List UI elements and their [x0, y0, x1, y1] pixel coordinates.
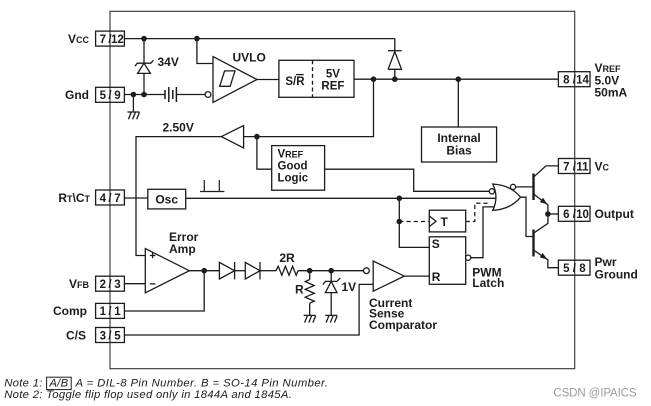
wire dashed to T flipflop clock — [399, 221, 429, 223]
svg-text:Note 1:: Note 1: — [4, 377, 43, 389]
node 2R-R — [307, 268, 313, 274]
svg-text:Logic: Logic — [278, 173, 309, 185]
svg-text:T: T — [441, 215, 449, 229]
svg-text:7: 7 — [100, 34, 106, 46]
resistor 2R horizontal — [276, 266, 298, 275]
wire zener 34V top lead — [143, 39, 145, 64]
wire 2.50V comparator output to error amp + — [136, 137, 221, 256]
wire RT/CT to Osc — [124, 197, 147, 199]
svg-text:Output: Output — [595, 207, 634, 221]
svg-text:5: 5 — [100, 90, 107, 102]
pin Output 6/10 box — [558, 206, 590, 221]
svg-text:9: 9 — [114, 90, 120, 102]
wire diode2 to 2R — [260, 270, 276, 272]
wire Osc output to gate — [186, 197, 496, 199]
svg-text:R: R — [295, 282, 304, 296]
wire UVLO upper input from Vcc — [197, 39, 213, 64]
IC outline — [110, 11, 575, 368]
wire zener 1V top lead — [330, 271, 332, 282]
wire down to latch S input — [399, 198, 429, 247]
diode D2 — [245, 262, 260, 279]
node T clock tap — [397, 219, 403, 225]
svg-text:5: 5 — [563, 263, 570, 275]
svg-text:Amp: Amp — [169, 242, 196, 256]
wire zener 1V bottom lead — [330, 293, 332, 316]
op-amp error amplifier — [145, 249, 189, 293]
node osc line tap — [397, 196, 403, 202]
svg-text:2.50V: 2.50V — [163, 121, 194, 135]
wire R top lead — [309, 271, 311, 280]
pin VFB 2/3 box — [96, 276, 125, 291]
svg-text:A/B: A/B — [48, 377, 68, 389]
svg-text:Osc: Osc — [155, 192, 178, 206]
transistor Q2 lower NPN — [534, 214, 559, 268]
ground symbol below Gnd pin — [128, 112, 140, 119]
svg-text:Comparator: Comparator — [369, 318, 437, 332]
clock waveform symbol — [200, 180, 224, 192]
pin Vcc 7/12 box — [96, 31, 125, 46]
svg-text:RT\CT: RT\CT — [58, 191, 90, 205]
svg-text:Ground: Ground — [595, 268, 638, 282]
svg-text:1V: 1V — [342, 280, 357, 294]
svg-text:Bias: Bias — [446, 144, 472, 158]
ground symbol below R — [304, 315, 316, 322]
battery symbol (UVLO threshold) — [165, 87, 176, 102]
NOTES — [4, 377, 328, 401]
svg-text:S: S — [432, 237, 440, 251]
svg-text:3: 3 — [100, 330, 106, 342]
wire latch Qbar to gate — [471, 207, 495, 258]
node comparator input branch — [254, 134, 260, 140]
svg-text:6: 6 — [563, 209, 569, 221]
diode D1 — [219, 262, 234, 279]
svg-text:Good: Good — [278, 161, 308, 173]
right pin labels — [595, 61, 638, 282]
pin VREF 8/14 box — [558, 72, 590, 87]
TEXT LABELS inside diagram — [155, 51, 504, 333]
svg-text:34V: 34V — [158, 55, 179, 69]
svg-text:CSDN @IPAICS: CSDN @IPAICS — [553, 388, 637, 400]
pin RT/CT 4/7 box — [96, 190, 125, 205]
svg-text:UVLO: UVLO — [233, 51, 266, 65]
op-amp 2.50V reference comparator — [221, 126, 243, 148]
wire R bottom lead — [309, 303, 311, 315]
svg-text:1: 1 — [100, 306, 107, 318]
svg-text:2R: 2R — [279, 251, 295, 265]
wire output node to pin 6/10 — [548, 213, 559, 215]
svg-text:5V: 5V — [326, 69, 340, 81]
svg-text:50mA: 50mA — [595, 86, 628, 100]
wire dashed T output to gate — [466, 203, 489, 221]
wire Vcc rail — [124, 38, 394, 40]
svg-text:Latch: Latch — [472, 276, 504, 290]
svg-text:VFB: VFB — [69, 277, 90, 291]
wire UVLO output to 5V REF block — [257, 79, 279, 81]
svg-text:S/R: S/R — [285, 76, 305, 88]
svg-text:Note 2: Toggle flip flop used: Note 2: Toggle flip flop used only in 18… — [4, 389, 292, 401]
wire VREF down to 2.50V comparator input — [244, 79, 374, 136]
svg-text:11: 11 — [576, 161, 589, 173]
op-amp UVLO comparator — [205, 57, 257, 103]
wire ground lead below Gnd — [132, 95, 134, 113]
svg-text:3: 3 — [114, 279, 120, 291]
svg-text:10: 10 — [576, 209, 589, 221]
node VREF-diode — [392, 76, 398, 82]
pin Pwr Ground 5/8 box — [558, 260, 590, 275]
node output totem pole — [545, 211, 551, 217]
wire diode bottom lead — [394, 69, 396, 80]
wire error amp output to diodes — [189, 270, 219, 272]
block Internal Bias — [422, 127, 497, 162]
ground symbol below 1V zener — [325, 315, 337, 322]
svg-text:8: 8 — [579, 263, 586, 275]
pin C/S 3/5 box — [96, 328, 125, 343]
svg-text:5: 5 — [114, 330, 121, 342]
wire gate output to lower transistor base — [521, 197, 534, 236]
node Gnd-ground — [131, 92, 137, 98]
resistor R vertical — [305, 280, 314, 304]
svg-text:VC: VC — [595, 159, 610, 173]
diode Vcc to VREF — [388, 51, 402, 70]
wire C/S to current sense lower input — [124, 284, 373, 335]
node Vcc-UVLO — [194, 36, 200, 42]
pin Vc 7/11 box — [558, 159, 590, 174]
svg-text:A = DIL-8 Pin Number. B = SO-1: A = DIL-8 Pin Number. B = SO-14 Pin Numb… — [75, 377, 329, 389]
pin Comp 1/1 box — [96, 303, 125, 318]
op-amp current sense comparator — [364, 261, 405, 291]
left pin labels — [53, 32, 91, 342]
block S/R 5V REF — [279, 60, 354, 97]
svg-text:1: 1 — [114, 306, 121, 318]
svg-text:REF: REF — [321, 81, 344, 93]
svg-text:7: 7 — [563, 161, 569, 173]
wire VREF Good Logic output to gate — [325, 169, 490, 191]
svg-text:R: R — [432, 270, 441, 284]
DASHED wires — [399, 203, 488, 221]
PINBOXES — [96, 31, 590, 342]
wire Gnd rail — [124, 94, 165, 96]
wire gate top bubble to upper transistor base — [516, 186, 534, 188]
node VREF-2.50V tap — [371, 76, 377, 82]
node Gnd-zener — [141, 92, 147, 98]
latch S/R box — [429, 237, 471, 284]
svg-text:Comp: Comp — [53, 304, 87, 318]
block Osc — [148, 189, 186, 209]
svg-text:12: 12 — [111, 34, 124, 46]
node 2R-zener1V — [328, 268, 334, 274]
wire current sense output to latch R — [404, 275, 429, 277]
svg-text:Gnd: Gnd — [65, 88, 89, 102]
svg-text:4: 4 — [100, 193, 107, 205]
wire branch to VREF Good Logic — [257, 137, 272, 170]
svg-text:VREF: VREF — [278, 149, 304, 161]
wire VFB to error amp - — [124, 283, 145, 285]
flip-flop T box — [429, 210, 465, 232]
wire Internal Bias feed — [457, 79, 459, 127]
node Vcc-zener — [141, 36, 147, 42]
wire VREF rail to pin 8/14 — [354, 78, 558, 80]
svg-text:2: 2 — [100, 279, 106, 291]
svg-text:7: 7 — [114, 193, 120, 205]
transistor Q1 upper NPN — [534, 166, 559, 214]
node VREF-bias — [456, 76, 462, 82]
svg-text:VCC: VCC — [68, 32, 90, 46]
svg-text:C/S: C/S — [66, 328, 86, 342]
svg-text:14: 14 — [576, 75, 589, 87]
zener diode 1V — [323, 278, 340, 293]
zener diode 34V — [135, 60, 154, 73]
wire zener 34V bottom lead — [143, 73, 145, 94]
wire comp feedback branch — [124, 271, 204, 311]
wire between diodes — [235, 270, 246, 272]
wire battery to UVLO bubble — [176, 94, 205, 96]
wire diode from Vcc rail top lead — [394, 39, 396, 51]
pin Gnd 5/9 box — [96, 87, 125, 102]
block VREF Good Logic — [272, 146, 325, 191]
svg-text:8: 8 — [563, 75, 570, 87]
wire 2R to current sense bubble — [298, 270, 363, 272]
gate NOR output driver — [489, 184, 520, 210]
node error amp output — [201, 268, 207, 274]
